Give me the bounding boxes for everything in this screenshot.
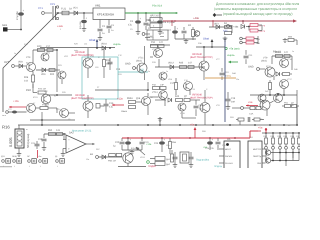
svg-text:+5в: +5в <box>190 124 195 127</box>
svg-text:(правой выходной каскад; цвет: (правой выходной каскад; цвет по проводу… <box>223 12 293 16</box>
svg-text:R26: R26 <box>24 76 29 79</box>
svg-text:(24Ω): (24Ω) <box>136 60 142 63</box>
svg-text:МК/РТ22: МК/РТ22 <box>253 148 262 151</box>
svg-text:+12в: +12в <box>117 98 123 101</box>
svg-text:R35: R35 <box>179 62 184 65</box>
svg-text:U5: U5 <box>227 138 231 141</box>
svg-text:КР142ЕН5А: КР142ЕН5А <box>97 13 115 17</box>
svg-text:ОУТ: ОУТ <box>4 61 9 64</box>
svg-text:C15: C15 <box>116 68 121 71</box>
svg-text:Ubat: Ubat <box>89 38 96 42</box>
svg-text:10к: 10к <box>86 158 89 161</box>
svg-text:R43: R43 <box>175 95 180 98</box>
svg-text:R50А: R50А <box>127 97 133 100</box>
svg-text:сигн: сигн <box>2 114 6 117</box>
svg-text:R22: R22 <box>50 73 55 76</box>
svg-text:5Вт(керам): 5Вт(керам) <box>26 134 30 148</box>
svg-text:+5в: +5в <box>258 127 263 130</box>
svg-text:1: 1 <box>29 165 30 168</box>
svg-text:1к: 1к <box>166 70 168 73</box>
svg-text:VD3: VD3 <box>214 23 219 26</box>
svg-text:+48в: +48в <box>193 17 200 20</box>
svg-text:+: + <box>68 147 70 151</box>
svg-text:МОUТ: МОUТ <box>225 148 232 151</box>
svg-text:Р32: Р32 <box>151 41 156 44</box>
svg-text:XS5: XS5 <box>223 30 228 33</box>
svg-text:Подстройка: Подстройка <box>196 159 210 162</box>
svg-text:C6 47µ16в: C6 47µ16в <box>163 21 175 24</box>
svg-text:Uвых: Uвых <box>121 110 128 113</box>
svg-text:FU1: FU1 <box>61 8 66 11</box>
svg-text:VD8: VD8 <box>18 61 23 64</box>
svg-text:С4А: С4А <box>249 113 254 116</box>
svg-text:47µ: 47µ <box>128 24 133 27</box>
svg-text:14Р: 14Р <box>160 84 164 87</box>
svg-text:ПВ2/РТд: ПВ2/РТд <box>253 155 262 158</box>
svg-text:(элементы маркированные транзи: (элементы маркированные транзисторы в ко… <box>214 7 297 11</box>
svg-text:R20А: R20А <box>275 51 281 54</box>
svg-text:1: 1 <box>57 165 58 168</box>
svg-text:Д16: Д16 <box>136 97 141 100</box>
svg-text:XT1: XT1 <box>38 7 43 10</box>
svg-text:ПОДКЛ: ПОДКЛ <box>148 165 157 168</box>
svg-text:+12в: +12в <box>146 143 152 146</box>
svg-text:1к: 1к <box>148 70 150 73</box>
svg-text:1: 1 <box>14 165 15 168</box>
svg-text:47µ16в: 47µ16в <box>79 21 82 29</box>
svg-text:(ВЫП.ТРАНЗИСТОР): (ВЫП.ТРАНЗИСТОР) <box>190 56 213 59</box>
svg-text:РА1.6А1: РА1.6А1 <box>225 162 234 165</box>
svg-text:ПОДстр: ПОДстр <box>214 165 223 168</box>
svg-text:C19: C19 <box>231 97 236 100</box>
svg-text:IRF9540: IRF9540 <box>192 53 203 56</box>
svg-text:C24: C24 <box>154 142 159 145</box>
svg-text:C22: C22 <box>115 141 120 144</box>
svg-text:10к: 10к <box>236 78 239 81</box>
svg-text:РАСМ3: РАСМ3 <box>225 155 233 158</box>
svg-text:(ВЫП.ТРАНЗИСТОР): (ВЫП.ТРАНЗИСТОР) <box>190 97 213 100</box>
svg-text:РЗЯ: РЗЯ <box>26 89 31 92</box>
svg-text:осц: осц <box>227 75 232 78</box>
svg-text:R52: R52 <box>48 129 53 132</box>
svg-text:VD1: VD1 <box>73 7 78 10</box>
svg-text:VT3: VT3 <box>26 56 31 59</box>
svg-text:Ubat: Ubat <box>203 37 209 41</box>
svg-text:GB1: GB1 <box>2 24 8 27</box>
svg-text:Р58 14?: Р58 14? <box>108 160 117 163</box>
svg-text:VT11: VT11 <box>138 57 144 60</box>
svg-text:GND: GND <box>248 66 254 69</box>
svg-text:GND: GND <box>125 63 131 66</box>
svg-text:+5в: +5в <box>248 101 253 104</box>
svg-text:(24Ω): (24Ω) <box>261 60 267 63</box>
svg-text:+Цепь: +Цепь <box>113 43 121 46</box>
svg-text:КМ1: КМ1 <box>149 36 155 39</box>
svg-text:−: − <box>68 138 70 142</box>
svg-text:ОБЩ: ОБЩ <box>12 155 17 158</box>
svg-text:+48в: +48в <box>233 25 239 28</box>
svg-text:0.005: 0.005 <box>9 137 13 147</box>
svg-text:VR1: VR1 <box>95 4 101 8</box>
svg-text:10к: 10к <box>260 118 263 121</box>
svg-text:+12в: +12в <box>57 25 63 28</box>
svg-text:ХР2 Х15: ХР2 Х15 <box>150 15 160 18</box>
svg-text:IRF9540: IRF9540 <box>75 51 86 54</box>
svg-text:C17: C17 <box>170 82 175 85</box>
svg-text:47µ16в: 47µ16в <box>16 11 19 20</box>
svg-text:+Цепь: +Цепь <box>227 54 235 57</box>
svg-text:10к: 10к <box>84 43 87 46</box>
svg-text:XP1: XP1 <box>50 3 55 6</box>
svg-text:VD9: VD9 <box>41 73 46 76</box>
svg-text:1: 1 <box>40 165 41 168</box>
svg-text:IRF9540: IRF9540 <box>192 93 203 96</box>
svg-text:1к: 1к <box>14 52 16 55</box>
svg-text:+12в: +12в <box>13 100 19 103</box>
svg-text:VT9: VT9 <box>263 57 268 60</box>
svg-text:+5в (зел): +5в (зел) <box>229 48 240 51</box>
svg-text:1к: 1к <box>292 50 294 53</box>
svg-text:C20: C20 <box>38 138 43 141</box>
svg-text:IRF9540: IRF9540 <box>75 94 86 97</box>
svg-text:VD10: VD10 <box>101 43 107 46</box>
svg-text:блок реле 10-21: блок реле 10-21 <box>72 130 92 133</box>
svg-text:VD12: VD12 <box>168 62 174 65</box>
svg-text:Р5в Х14: Р5в Х14 <box>152 5 162 8</box>
svg-text:Дополняли в номиналах: для кон: Дополняли в номиналах: для контроллера 4… <box>216 2 299 6</box>
svg-text:R16: R16 <box>2 125 10 130</box>
svg-text:+5в: +5в <box>38 155 41 158</box>
svg-text:(ВЫП.ТРАНЗИСТОР): (ВЫП.ТРАНЗИСТОР) <box>71 97 94 100</box>
svg-text:VT14: VT14 <box>152 91 158 94</box>
svg-text:47µ: 47µ <box>109 105 114 108</box>
svg-text:5А: 5А <box>69 8 72 11</box>
